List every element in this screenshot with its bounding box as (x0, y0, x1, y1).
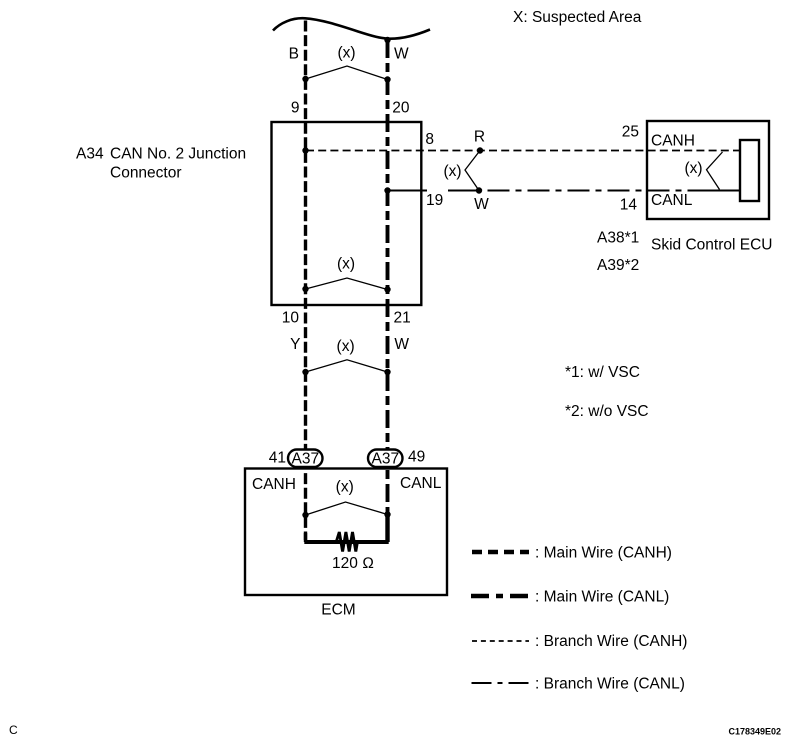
svg-text:A34: A34 (76, 146, 104, 163)
svg-text:*2: w/o VSC: *2: w/o VSC (565, 403, 649, 420)
svg-text:ECM: ECM (321, 602, 355, 619)
svg-text:W: W (394, 46, 409, 63)
svg-text:*1: w/ VSC: *1: w/ VSC (565, 364, 640, 381)
svg-text:21: 21 (394, 310, 411, 327)
svg-text:A37: A37 (372, 451, 400, 468)
svg-text:CANL: CANL (400, 475, 442, 492)
svg-text:(x): (x) (337, 256, 355, 273)
svg-text:25: 25 (622, 124, 639, 141)
svg-text:(x): (x) (336, 479, 354, 496)
svg-text:CAN No. 2 Junction: CAN No. 2 Junction (110, 146, 246, 163)
svg-text:: Main Wire (CANL): : Main Wire (CANL) (535, 589, 669, 606)
svg-text:Skid Control ECU: Skid Control ECU (651, 237, 772, 254)
svg-text:41: 41 (269, 450, 286, 467)
svg-text:(x): (x) (443, 163, 461, 180)
svg-text:120 Ω: 120 Ω (332, 555, 374, 572)
svg-text:14: 14 (620, 197, 638, 214)
svg-text:R: R (474, 129, 485, 146)
svg-text:(x): (x) (337, 338, 355, 355)
svg-text:(x): (x) (337, 45, 355, 62)
svg-text:CANH: CANH (651, 133, 695, 150)
svg-text:W: W (474, 196, 489, 213)
svg-text:A39*2: A39*2 (597, 257, 639, 274)
svg-text:Connector: Connector (110, 165, 182, 182)
svg-text:Y: Y (290, 336, 300, 353)
svg-text:49: 49 (408, 449, 425, 466)
svg-text:C178349E02: C178349E02 (728, 727, 781, 737)
svg-text:: Main Wire (CANH): : Main Wire (CANH) (535, 545, 672, 562)
svg-text:B: B (289, 46, 299, 63)
svg-text:8: 8 (425, 131, 434, 148)
svg-text:(x): (x) (684, 160, 702, 177)
svg-text:X: Suspected Area: X: Suspected Area (513, 9, 642, 26)
svg-text:9: 9 (291, 100, 300, 117)
svg-text:A38*1: A38*1 (597, 230, 639, 247)
svg-text:CANH: CANH (252, 476, 296, 493)
svg-text:: Branch Wire (CANL): : Branch Wire (CANL) (535, 676, 685, 693)
svg-text:: Branch Wire (CANH): : Branch Wire (CANH) (535, 633, 687, 650)
svg-text:CANL: CANL (651, 192, 693, 209)
svg-text:19: 19 (426, 192, 443, 209)
svg-text:10: 10 (282, 310, 300, 327)
svg-text:C: C (9, 723, 18, 737)
svg-text:20: 20 (392, 100, 410, 117)
svg-text:W: W (394, 336, 409, 353)
svg-text:A37: A37 (292, 451, 320, 468)
